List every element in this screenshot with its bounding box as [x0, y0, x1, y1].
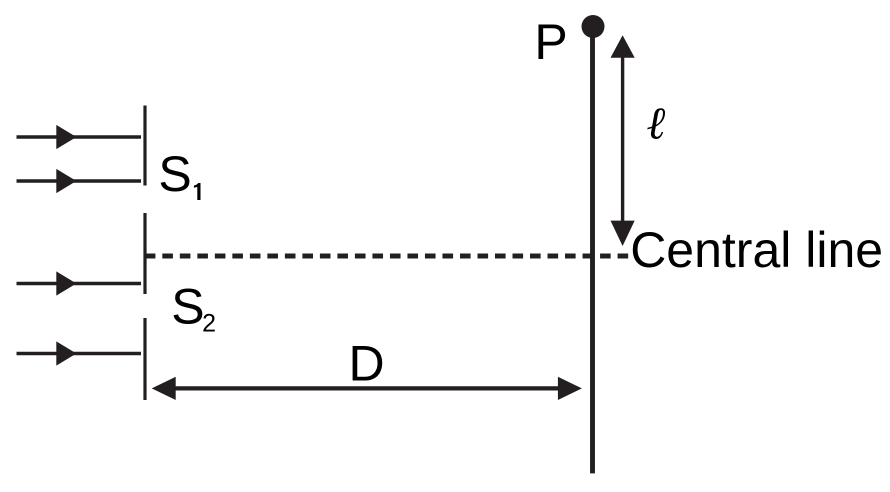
- svg-text:S: S: [158, 146, 191, 202]
- screen line: [590, 27, 595, 474]
- svg-text:D: D: [349, 336, 385, 392]
- svg-text:Central line: Central line: [630, 222, 883, 278]
- point P dot: [582, 15, 605, 38]
- label S1: [158, 146, 200, 202]
- incident wave arrow 1: [17, 125, 142, 149]
- D double arrow: [152, 377, 582, 400]
- incident wave arrow 4: [17, 341, 142, 365]
- slit barrier top segment: [143, 106, 146, 186]
- ell double arrow: [611, 35, 635, 246]
- svg-text:2: 2: [202, 310, 216, 338]
- central dashed line: [145, 254, 629, 259]
- svg-text:ℓ: ℓ: [646, 98, 665, 149]
- slit barrier bottom segment: [143, 318, 146, 400]
- incident wave arrow 3: [17, 271, 142, 295]
- svg-text:S: S: [171, 279, 204, 335]
- svg-text:P: P: [534, 14, 567, 70]
- label S2: [171, 279, 216, 338]
- slit barrier middle segment: [143, 213, 146, 294]
- incident wave arrow 2: [17, 169, 142, 193]
